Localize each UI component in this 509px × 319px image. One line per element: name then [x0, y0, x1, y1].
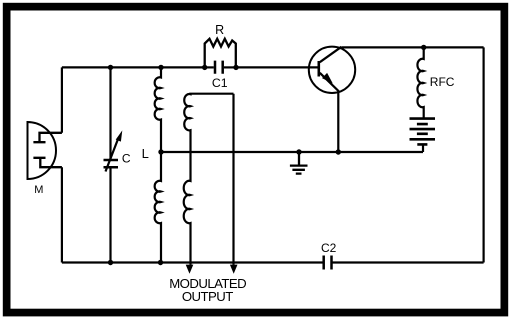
wire: base lead	[236, 66, 319, 68]
wire: right edge vertical	[483, 47, 485, 262]
wire: left riser upper	[61, 67, 63, 132]
junction dot R/C1 right	[233, 65, 238, 70]
wire: variable capacitor branch lower	[109, 168, 111, 263]
svg-text:C: C	[122, 152, 131, 166]
output arrow left	[186, 265, 194, 274]
variable capacitor C plates	[104, 160, 119, 167]
microphone M outline	[28, 122, 57, 179]
svg-text:OUTPUT: OUTPUT	[182, 289, 233, 304]
svg-text:C1: C1	[212, 76, 228, 90]
microphone M upper electrode	[33, 133, 62, 142]
variable capacitor C arrow	[106, 138, 119, 172]
junction dot C bottom	[108, 260, 113, 265]
junction dot C top	[108, 65, 113, 70]
svg-text:RFC: RFC	[430, 75, 455, 89]
transistor Q1 circle	[309, 47, 355, 93]
junction dot L top	[158, 65, 163, 70]
svg-text:C2: C2	[321, 241, 337, 255]
junction dot RFC top	[421, 45, 426, 50]
wire: top-left horizontal bus	[62, 66, 205, 68]
ground	[290, 152, 308, 174]
wire: battery bottom to mid bus	[422, 144, 424, 152]
junction dot L tap	[158, 149, 163, 154]
inductor L (primary coil)	[155, 67, 161, 262]
transistor Q1 collector	[320, 47, 342, 62]
junction dot R/C1 left	[202, 65, 207, 70]
wire: top bus collector to right edge	[341, 46, 483, 48]
wire: variable capacitor branch upper	[109, 67, 111, 158]
transistor Q1 emitter	[320, 73, 339, 152]
battery BT1	[410, 119, 436, 145]
wire: middle bus	[161, 151, 423, 153]
resistor R	[205, 39, 236, 68]
junction dot L bottom	[158, 260, 163, 265]
inductor RFC	[417, 47, 423, 118]
wire: C1 link left	[205, 66, 214, 68]
wire: bottom bus left	[62, 261, 324, 263]
junction dot emitter	[336, 149, 341, 154]
wire: C1 link right	[224, 66, 236, 68]
svg-text:L: L	[142, 146, 149, 161]
wire: secondary right lead down	[232, 94, 234, 265]
capacitor C1 plates	[215, 61, 223, 74]
transistor Q1 emitter arrow	[322, 73, 333, 84]
transistor Q1 base bar	[317, 61, 320, 77]
junction dot ground	[296, 149, 301, 154]
output arrow right	[230, 265, 238, 274]
svg-text:R: R	[215, 23, 224, 37]
wire: left riser lower	[61, 167, 63, 262]
microphone M lower electrode	[33, 158, 62, 167]
transformer secondary coil	[184, 94, 234, 265]
capacitor C2 plates	[324, 256, 332, 270]
svg-text:M: M	[34, 184, 43, 196]
wire: bottom bus right	[332, 261, 484, 263]
